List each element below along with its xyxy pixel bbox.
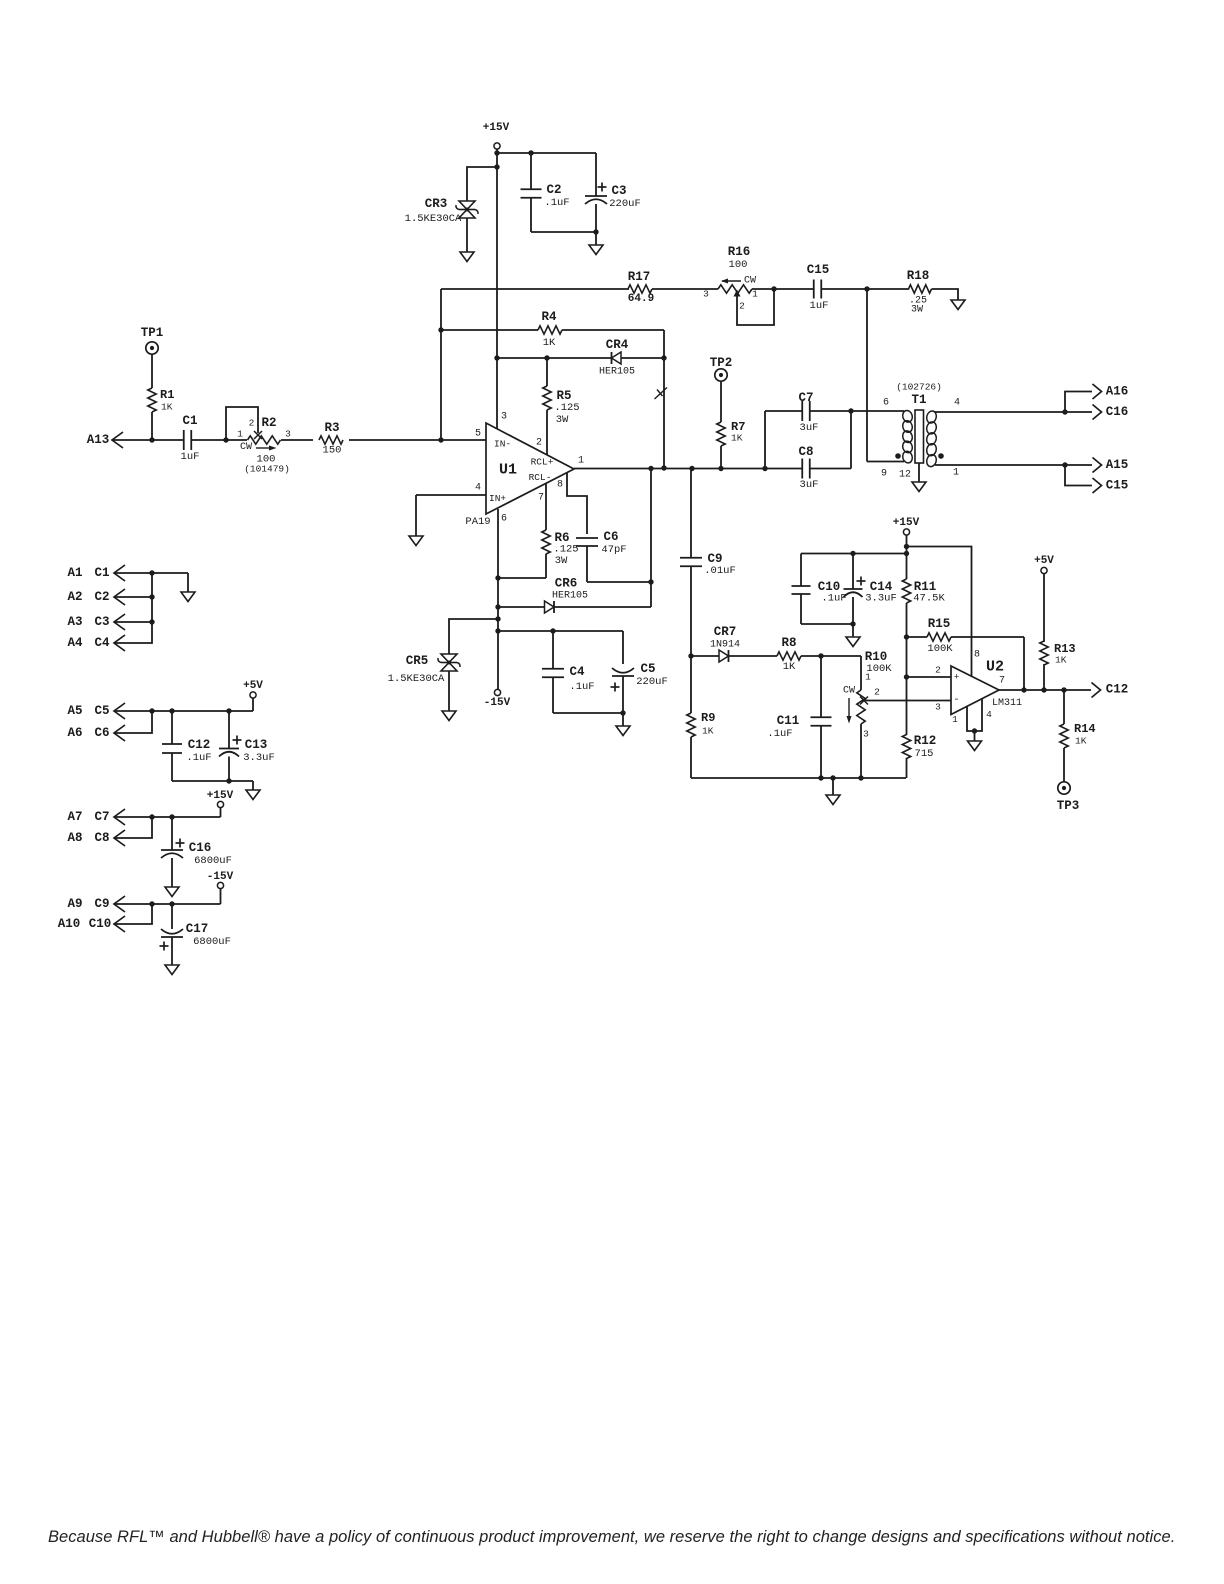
wire A1-A4 bus [115,573,152,643]
terminal C16 arrow [1065,411,1092,413]
resistor R6 .125 3W [545,483,547,530]
svg-text:8: 8 [557,480,563,491]
ground below C3 [589,245,603,255]
svg-text:+15V: +15V [207,790,234,802]
svg-text:U1: U1 [499,462,517,479]
svg-text:R17: R17 [628,270,651,284]
resistor R8 1K [777,652,801,660]
svg-text:CR4: CR4 [606,338,629,352]
svg-text:.125: .125 [554,402,579,414]
capacitor C16 6800uF (polarized) [171,817,173,850]
capacitor C5 220uF (polarized) [622,631,624,664]
wire U2 pins 1 and 4 [967,699,982,731]
svg-text:A1: A1 [67,566,82,580]
wire feedback top line [441,288,629,290]
svg-text:C6: C6 [603,530,618,544]
svg-text:2: 2 [249,418,255,429]
capacitor C12 .1uF [171,711,173,744]
svg-text:12: 12 [899,470,911,481]
svg-text:1: 1 [952,714,958,725]
capacitor C6 47pF [576,537,598,539]
wire R10 wiper to U2 pin 3 [864,700,951,702]
resistor R9 1K [690,656,692,713]
svg-text:A3: A3 [67,615,82,629]
svg-text:5: 5 [475,429,481,440]
svg-text:6800uF: 6800uF [193,936,231,948]
svg-text:R5: R5 [556,389,571,403]
svg-text:A4: A4 [67,636,83,650]
svg-text:PA19: PA19 [465,516,490,528]
ground below T1 [912,482,926,492]
svg-text:RCL+: RCL+ [531,457,554,468]
svg-text:2: 2 [536,438,542,449]
svg-text:C9: C9 [707,552,722,566]
svg-text:C2: C2 [546,183,561,197]
svg-text:A7: A7 [67,810,82,824]
svg-text:2: 2 [739,301,745,312]
svg-text:3W: 3W [556,414,569,426]
svg-text:C15: C15 [807,263,830,277]
wire A9 line [115,903,221,905]
wire C7/C8 right branch [850,411,852,469]
ground right of R18 [951,300,965,310]
capacitor C17 6800uF (polarized) [171,904,173,929]
svg-text:C15: C15 [1106,479,1129,493]
svg-text:1K: 1K [543,337,556,349]
ground below C13 [246,790,260,800]
svg-text:1K: 1K [1075,736,1087,747]
svg-text:2: 2 [874,687,880,698]
resistor R13 1K [1043,574,1045,643]
resistor R4 1K [441,329,538,331]
svg-text:C12: C12 [1106,683,1129,697]
svg-text:R16: R16 [728,245,751,259]
ground below pin 4 [409,536,423,546]
svg-text:47.5K: 47.5K [913,593,945,605]
wire C10/C14 bottom [801,623,853,625]
ground below C5 [616,726,630,736]
ground below C16 [165,887,179,897]
svg-text:T1: T1 [911,393,926,407]
svg-text:1: 1 [578,456,584,467]
svg-text:IN+: IN+ [489,493,506,504]
wire CR5 branch [449,619,498,654]
svg-text:R2: R2 [261,416,276,430]
capacitor C13 3.3uF (polarized) [228,711,230,749]
svg-text:715: 715 [915,748,934,760]
svg-text:3uF: 3uF [800,422,819,434]
wire C12/C13 bottom [172,780,253,782]
svg-text:+: + [954,673,959,683]
svg-text:1: 1 [237,429,243,440]
svg-text:IN-: IN- [494,439,511,450]
svg-text:TP1: TP1 [141,326,164,340]
svg-text:CW: CW [744,276,756,287]
svg-text:.1uF: .1uF [544,197,569,209]
wire R8 to R10 [801,655,861,657]
svg-text:4: 4 [475,483,481,494]
svg-text:R3: R3 [324,421,339,435]
wire U2 pin 2 [906,637,908,735]
wire C6 bottom to node [587,581,651,583]
svg-text:47pF: 47pF [601,544,626,556]
svg-text:A6: A6 [67,726,82,740]
svg-text:1K: 1K [1055,655,1067,666]
wire node vertical [650,469,652,608]
svg-text:C17: C17 [186,922,209,936]
svg-text:TP2: TP2 [710,356,733,370]
capacitor C7 3uF [765,410,802,412]
svg-text:1K: 1K [161,402,173,413]
wire R4 right corner down [663,330,665,358]
svg-text:TP3: TP3 [1057,799,1080,813]
ground below CR5 [442,711,456,721]
svg-text:220uF: 220uF [609,198,641,210]
svg-text:U2: U2 [986,659,1004,676]
ground below A1 bus [181,592,195,602]
R16 CW arrow [722,280,741,282]
svg-text:6800uF: 6800uF [194,855,232,867]
wire C10/C14 top line [906,547,908,580]
svg-text:R8: R8 [781,636,796,650]
wire stub to ground [187,573,189,592]
svg-text:HER105: HER105 [552,591,588,602]
svg-text:.125: .125 [553,544,578,556]
svg-text:CR3: CR3 [425,197,448,211]
wire top to C2/C3 [497,152,596,154]
svg-text:A9: A9 [67,897,82,911]
wire CR5 to ground [448,671,450,711]
svg-text:3: 3 [501,412,507,423]
wire stub to ground [832,778,834,795]
capacitor C15 1uF [813,280,815,299]
diode CR7 1N914 [691,655,720,657]
svg-text:1: 1 [752,289,758,300]
svg-text:6: 6 [501,514,507,525]
svg-text:.01uF: .01uF [704,565,736,577]
comparator U2 LM311 [951,666,999,715]
resistor R14 1K [1063,690,1065,724]
svg-text:C7: C7 [94,810,109,824]
capacitor C1 1uF [183,430,191,450]
wire stub to ground [595,232,597,245]
ground below C14 [846,637,860,647]
wire CR4 node down to output [663,358,665,468]
svg-text:1K: 1K [731,433,743,444]
op-amp U1 PA19 [486,423,574,514]
svg-text:1.5KE30CA: 1.5KE30CA [405,213,462,225]
resistor R5 .125 3W [546,358,548,386]
wire stub to ground [622,713,624,726]
svg-text:.1uF: .1uF [767,728,792,740]
svg-text:A10: A10 [58,917,81,931]
svg-text:3.3uF: 3.3uF [243,752,275,764]
svg-text:HER105: HER105 [599,367,635,378]
wire R15 to output [1023,637,1025,690]
svg-text:R4: R4 [541,310,557,324]
svg-text:-15V: -15V [207,871,234,883]
svg-text:A15: A15 [1106,458,1129,472]
wire C4/C5 bottom [553,712,623,714]
svg-text:C2: C2 [94,590,109,604]
wire C15 to R18 [822,288,910,290]
ground below C17 [165,965,179,975]
test point TP3 [1058,782,1070,794]
svg-text:R12: R12 [914,734,937,748]
svg-text:C4: C4 [569,665,585,679]
svg-text:3: 3 [285,429,291,440]
svg-text:-: - [953,695,959,706]
resistor R18 .25 3W [909,285,932,293]
svg-text:3W: 3W [911,305,923,316]
svg-text:6: 6 [883,398,889,409]
svg-text:C1: C1 [182,414,197,428]
svg-text:7: 7 [538,493,544,504]
wire CR7 to R8 [729,655,778,657]
svg-text:C7: C7 [798,391,813,405]
svg-text:+5V: +5V [243,680,263,692]
svg-text:C1: C1 [94,566,109,580]
wire A5 line to +5V [115,710,253,712]
resistor R11 47.5K [902,579,910,603]
svg-text:+15V: +15V [483,122,510,134]
svg-text:C12: C12 [188,738,211,752]
terminal A15 arrow [1065,464,1092,466]
ground below U2 [968,741,982,751]
svg-text:3uF: 3uF [800,479,819,491]
capacitor C11 .1uF [820,656,822,717]
wire T1 pin 1 to outputs [935,464,1065,466]
svg-text:C5: C5 [94,704,109,718]
svg-text:C3: C3 [94,615,109,629]
svg-text:R14: R14 [1074,722,1096,736]
wire C2/C3 bottom [531,231,596,233]
wire bottom rail [691,777,906,779]
svg-text:R10: R10 [865,650,888,664]
capacitor C9 .01uF [690,469,692,559]
svg-text:C5: C5 [640,662,655,676]
svg-text:CR5: CR5 [406,654,429,668]
wire +15V to U2 pin 8 [907,547,972,677]
wire R10 bottom [860,724,862,778]
svg-text:1.5KE30CA: 1.5KE30CA [388,673,445,685]
svg-text:A2: A2 [67,590,82,604]
svg-text:C4: C4 [94,636,110,650]
svg-text:1K: 1K [702,726,714,737]
wire T1 pin 4 to outputs [935,411,1065,413]
terminal C12 arrow [1092,683,1101,698]
wire to C4/C5 [498,630,623,632]
svg-text:C16: C16 [1106,405,1129,419]
svg-text:3: 3 [935,702,941,713]
svg-text:1K: 1K [783,661,796,673]
svg-text:3W: 3W [555,555,568,567]
svg-text:8: 8 [974,650,980,661]
capacitor C3 220uF (polarized) [595,153,597,196]
svg-text:C9: C9 [94,897,109,911]
svg-text:A8: A8 [67,831,82,845]
svg-text:7: 7 [999,676,1005,687]
svg-text:100K: 100K [866,663,892,675]
wire CR4 line [497,357,611,359]
wire pin8 to C6 [567,473,587,534]
node +5V (left) [252,698,254,711]
svg-text:1uF: 1uF [181,451,200,463]
capacitor C2 .1uF [530,153,532,189]
wire R15 junction [904,634,909,639]
capacitor C4 .1uF [552,631,554,669]
svg-text:220uF: 220uF [636,676,668,688]
svg-text:RCL-: RCL- [529,472,552,483]
wire R6 bottom to pin6 line [498,577,546,579]
svg-text:C3: C3 [611,184,626,198]
resistor R7 1K [720,382,722,423]
svg-text:-15V: -15V [484,697,511,709]
svg-text:3: 3 [863,729,869,740]
svg-text:.1uF: .1uF [569,681,594,693]
svg-text:+15V: +15V [893,517,920,529]
wire R17 to R16 [652,288,718,290]
svg-text:R1: R1 [160,388,174,402]
svg-text:C8: C8 [798,445,813,459]
svg-text:C6: C6 [94,726,109,740]
wire CR7 node [688,653,693,658]
capacitor C10 .1uF [800,554,802,587]
wire T1 pin 12 to ground [918,463,920,482]
wire R16 to C15 [752,288,814,290]
terminal C15 arrow [1065,465,1092,486]
wire C7/C8 left branch [764,411,766,469]
wire stub to ground [252,781,254,790]
wire to T1 pin 6 [851,410,904,412]
svg-text:R15: R15 [928,617,951,631]
resistor R1 1K [151,355,153,389]
wire down to R10 [860,656,862,690]
svg-text:CR7: CR7 [714,625,737,639]
potentiometer R2 100 (101479) [247,434,281,445]
svg-text:3.3uF: 3.3uF [865,593,897,605]
wire A8 to A7 line [115,817,152,838]
svg-text:150: 150 [323,445,342,457]
wire R18 to ground [932,289,959,300]
svg-text:LM311: LM311 [992,698,1022,709]
wire +15V stub down [496,150,498,154]
svg-text:4: 4 [986,709,992,720]
svg-text:A5: A5 [67,704,82,718]
potentiometer R10 100K [857,690,865,724]
resistor R12 715 [902,735,910,759]
capacitor C8 3uF [765,468,802,470]
svg-text:.1uF: .1uF [821,593,846,605]
svg-text:C10: C10 [89,917,112,931]
resistor R15 100K [907,636,928,638]
potentiometer R16 100 [718,285,752,293]
ground below CR3 [460,252,474,262]
svg-text:C13: C13 [245,738,268,752]
wire feedback left vertical [440,289,442,440]
svg-text:C8: C8 [94,831,109,845]
transzorb CR3 1.5KE30CA [459,201,475,210]
svg-text:1uF: 1uF [810,300,829,312]
svg-text:C11: C11 [777,714,800,728]
svg-text:3: 3 [703,289,709,300]
wire U1 pin 4 input [416,494,486,496]
wire A13 to U1 pin 5 [113,439,486,441]
wire A10 to A9 line [115,904,152,924]
svg-text:C16: C16 [189,841,212,855]
svg-text:100K: 100K [927,643,953,655]
svg-text:100: 100 [729,259,748,271]
footer note [48,1528,1188,1547]
ground below rail [826,795,840,805]
wire CR3 to ground [466,218,468,252]
wire U1 pin 6 down [497,509,499,690]
capacitor C14 3.3uF (polarized) [852,554,854,590]
svg-text:CW: CW [843,686,855,697]
R16 wiper to pin 1 jog [734,290,741,297]
wire +15V vertical rail to U1 pin 3 [496,153,498,429]
resistor R3 150 [313,434,349,445]
svg-text:.1uF: .1uF [186,752,211,764]
wire CR3 branch [467,167,497,201]
wire C15 node down to T1 pin 9 [866,289,868,462]
svg-text:2: 2 [935,665,941,676]
svg-text:(102726): (102726) [896,382,942,393]
svg-text:R18: R18 [907,269,930,283]
wire A6 to A5 line [115,711,152,733]
check mark on wire [655,388,668,400]
resistor R17 64.9 [628,285,652,293]
svg-text:9: 9 [881,469,887,480]
svg-text:A16: A16 [1106,385,1129,399]
diode CR6 HER105 [498,606,545,608]
svg-text:1N914: 1N914 [710,640,740,651]
terminal A16 arrow [1065,392,1092,413]
transzorb CR5 1.5KE30CA [441,654,457,663]
svg-text:1: 1 [953,468,959,479]
wire U2 output [999,689,1091,691]
svg-text:+5V: +5V [1034,555,1054,567]
wire U1 output [574,468,765,470]
svg-text:64.9: 64.9 [628,293,654,305]
svg-text:(101479): (101479) [244,464,290,475]
wire A7 line [115,816,221,818]
svg-text:R9: R9 [701,711,715,725]
svg-text:CR6: CR6 [555,577,578,591]
diode CR4 HER105 [612,352,622,364]
svg-text:A13: A13 [87,433,110,447]
svg-text:4: 4 [954,398,960,409]
svg-text:CW: CW [240,442,252,453]
node -15V [494,689,500,695]
